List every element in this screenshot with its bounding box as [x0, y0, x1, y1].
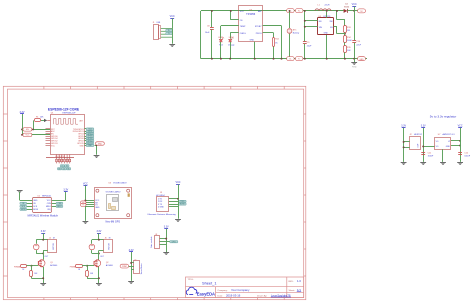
svg-text:MISO: MISO — [57, 206, 62, 208]
svg-text:HDR1X2: HDR1X2 — [414, 134, 423, 136]
svg-text:CSN: CSN — [47, 203, 52, 205]
svg-text:ESP8266-12F CORE: ESP8266-12F CORE — [48, 108, 80, 112]
wire GPS GND pin — [85, 206, 94, 208]
svg-text:AO3400: AO3400 — [50, 264, 57, 267]
svg-text:100K: 100K — [347, 40, 352, 42]
net port B+ — [287, 9, 295, 13]
wire gate — [87, 265, 94, 267]
svg-text:GND: GND — [360, 59, 365, 61]
capacitor C12 — [458, 152, 471, 157]
wire U4 STDBY to LED2 — [230, 32, 239, 34]
net port GND flag (ESP) — [96, 142, 105, 145]
ground (reg 4) — [457, 163, 463, 166]
GPS mounting holes — [96, 189, 99, 192]
power flag 3.3V (gate) — [164, 226, 169, 239]
svg-text:Date:: Date: — [218, 294, 224, 297]
svg-text:GND: GND — [33, 200, 38, 202]
LED1 — [218, 37, 224, 60]
svg-text:VCC: VCC — [240, 11, 245, 13]
svg-text:MOSI: MOSI — [21, 209, 26, 211]
net port SRV flag — [129, 266, 134, 268]
power flag VCC (boost out) — [352, 3, 357, 12]
svg-text:CHRG: CHRG — [240, 33, 246, 35]
wire U5 GND down — [326, 35, 328, 59]
svg-text:AMS1117-3.3: AMS1117-3.3 — [443, 133, 456, 136]
EasyEDA logo — [186, 287, 215, 296]
ground (NRF) — [17, 191, 33, 201]
svg-text:Company:: Company: — [218, 290, 228, 292]
svg-text:Battery: Battery — [293, 32, 299, 35]
svg-text:GND: GND — [95, 207, 100, 209]
wire left edge — [200, 11, 202, 59]
ground (motor 2) — [96, 284, 102, 287]
svg-text:FP6291: FP6291 — [324, 16, 332, 18]
ground (USB) — [169, 45, 175, 48]
svg-text:LED1: LED1 — [218, 37, 224, 39]
connector J6 motor — [104, 238, 113, 253]
wire U4 GND — [254, 42, 256, 59]
module U1 ESP8266-12F — [51, 113, 85, 155]
net label GPIO4 — [86, 133, 94, 135]
svg-text:EasyEDA: EasyEDA — [197, 291, 215, 296]
capacitor C10 — [352, 11, 361, 60]
connector J5 motor — [48, 238, 57, 253]
capacitor C9 — [303, 10, 312, 60]
connector U6 — [403, 134, 423, 150]
wire source to pulldown — [87, 278, 99, 280]
wire GPS VCC pin — [85, 200, 94, 202]
resistor R6 pulldown — [86, 266, 94, 279]
ground (reg 3) — [440, 163, 446, 166]
power flag 3.3V (NRF) — [52, 189, 69, 201]
svg-text:MOSI: MOSI — [33, 209, 38, 211]
svg-text:1.0: 1.0 — [297, 279, 301, 283]
ESP bottom net labels — [60, 165, 64, 167]
wire gate GND — [160, 244, 167, 246]
wire US GND — [169, 206, 178, 208]
capacitor C15 motor — [89, 240, 95, 254]
svg-text:Servo Motor: Servo Motor — [140, 263, 143, 274]
net label CSN — [52, 203, 56, 205]
net label ECHO — [169, 204, 179, 206]
svg-text:GPIO: GPIO — [172, 241, 177, 243]
transistor Q1 MOSFET — [38, 260, 57, 267]
pin L8 VCC — [46, 145, 51, 147]
wire top rail — [201, 10, 344, 12]
net label GPIO2 — [86, 140, 94, 142]
power flag 3.3V (motor 1) — [41, 230, 46, 240]
wire U4 pin2 — [230, 11, 232, 20]
pin L5 GPIO14 — [46, 138, 51, 140]
net label GPIO5 — [86, 135, 94, 137]
svg-text:D+: D+ — [168, 30, 170, 32]
wire U7 GND down — [442, 149, 444, 162]
sheet border frame — [3, 86, 306, 299]
pin L1 RST — [46, 128, 51, 130]
svg-text:R1: R1 — [36, 116, 38, 118]
svg-text:ANT: ANT — [80, 120, 83, 123]
IC U7 AMS1117-3.3 — [435, 133, 456, 150]
connector J7 servo — [134, 259, 143, 274]
net label CE — [27, 203, 33, 205]
power flag VCC (USB) — [170, 15, 175, 28]
power flag 3.3V (reg left) — [401, 125, 406, 162]
ground (reg 1) — [401, 163, 407, 166]
svg-text:22uH: 22uH — [325, 4, 330, 6]
svg-text:CK: CK — [63, 168, 65, 170]
svg-text:GY-NEO-6MV2: GY-NEO-6MV2 — [106, 192, 122, 194]
net label TXD0 — [86, 128, 94, 130]
svg-text:Charge: Charge — [228, 45, 235, 47]
power flag 3.3V (ESP) — [20, 111, 25, 135]
net port EN flag — [22, 129, 50, 131]
net label SCK — [27, 206, 33, 208]
wire US 5V — [169, 198, 178, 200]
resistor R5 gate — [70, 265, 87, 272]
GPS inner board — [107, 193, 130, 210]
pin L7 GPIO13 — [46, 143, 51, 145]
ground (ESP) — [94, 156, 100, 159]
wire source to pulldown — [31, 278, 43, 280]
diode D4 SS34 — [344, 4, 355, 13]
svg-text:1M: 1M — [347, 30, 350, 32]
IC U5 boost — [318, 16, 334, 35]
svg-text:TX: TX — [82, 205, 84, 207]
title block — [186, 277, 304, 298]
svg-text:U2: U2 — [38, 195, 40, 197]
connector J8 gate — [150, 234, 159, 249]
svg-text:PROG: PROG — [256, 33, 262, 35]
net label TRIG — [169, 201, 179, 203]
pin L3 EN — [46, 133, 51, 135]
power flag 3.3V (motor 2) — [96, 230, 101, 240]
net port GND (bottom) — [358, 57, 366, 61]
svg-text:Neo-6M GPS: Neo-6M GPS — [106, 220, 121, 223]
wire divider top — [336, 11, 338, 20]
svg-text:VCC: VCC — [83, 182, 88, 185]
net port RX mini flag — [84, 202, 94, 204]
svg-text:LED2: LED2 — [229, 37, 235, 39]
wire — [172, 28, 174, 43]
power flag VCC (US) — [175, 181, 180, 199]
svg-text:Your Company: Your Company — [231, 288, 250, 292]
connector J1 USB — [153, 22, 173, 39]
svg-text:GND: GND — [80, 145, 85, 147]
svg-text:9 10 11 6 7 8: 9 10 11 6 7 8 — [55, 156, 64, 158]
wire U4 STDBY branch — [263, 25, 282, 27]
power flag VCC (GPS) — [83, 182, 88, 207]
wire U5 VIN — [305, 26, 318, 28]
svg-text:10uF: 10uF — [205, 32, 210, 34]
net port P- (bottom) — [295, 57, 303, 61]
net port 5V (top) — [354, 10, 358, 12]
svg-text:22uF: 22uF — [356, 45, 361, 47]
resistor R13 — [344, 26, 352, 36]
wire U5 SW up — [326, 12, 328, 18]
wire U4 CHRG to LED1 — [221, 25, 239, 27]
power flag 3.3V (reg mid) — [421, 125, 426, 162]
svg-text:NRF24L01 Wireless Module: NRF24L01 Wireless Module — [27, 214, 58, 217]
net label GPIO15 — [86, 142, 94, 144]
net label D+ — [166, 29, 172, 31]
net port TX mini flag — [84, 204, 94, 206]
svg-text:100nF: 100nF — [464, 156, 470, 158]
net label D- — [166, 32, 172, 34]
svg-text:Q2: Q2 — [106, 262, 109, 264]
svg-text:VCC: VCC — [47, 200, 52, 202]
ESP bottom header — [46, 155, 74, 164]
net port B- (bottom) — [287, 57, 295, 61]
svg-text:3.3V: 3.3V — [96, 230, 101, 233]
wire motor top tee — [92, 239, 104, 241]
svg-text:MISO: MISO — [46, 206, 51, 208]
svg-text:PWMA: PWMA — [14, 265, 21, 268]
svg-text:NRF24L01: NRF24L01 — [42, 195, 51, 197]
svg-text:ECHO: ECHO — [180, 204, 186, 206]
wire servo VCC — [131, 262, 134, 264]
net label RXD0 — [86, 130, 94, 132]
net label MOSI — [27, 209, 33, 211]
svg-text:GND: GND — [250, 39, 255, 41]
svg-text:PWM: PWM — [122, 266, 127, 268]
net label GPIO — [160, 241, 170, 243]
svg-text:GND: GND — [324, 32, 329, 34]
ground (US) — [175, 220, 181, 223]
ground (boost) — [351, 59, 357, 69]
module U8 ultrasonic — [156, 192, 169, 211]
svg-text:Gate module: Gate module — [150, 236, 153, 248]
resistor R4 pulldown — [30, 266, 39, 279]
svg-text:STDBY: STDBY — [255, 26, 262, 28]
wire ESP GND out — [95, 145, 97, 147]
svg-text:TP4056: TP4056 — [246, 12, 256, 16]
pin L4 GPIO16 — [46, 136, 51, 138]
svg-text:VCC: VCC — [170, 15, 175, 18]
wire reg mid to U7 — [423, 146, 434, 148]
resistor R15 — [344, 46, 352, 60]
battery BT1 — [287, 10, 299, 60]
resistor R3 gate — [14, 265, 31, 272]
LED2 — [228, 37, 235, 60]
module U2 NRF24L01 — [33, 195, 52, 212]
svg-text:MOTOR: MOTOR — [53, 242, 55, 249]
module U3 GPS — [95, 182, 132, 218]
svg-text:SW: SW — [330, 21, 333, 23]
capacitor C8 — [205, 10, 214, 60]
wire gate — [31, 265, 38, 267]
transistor Q2 MOSFET — [94, 260, 113, 267]
capacitor C14 motor — [33, 240, 39, 254]
ground (gate) — [163, 253, 169, 256]
wire U5 FB to divider — [334, 26, 338, 28]
svg-text:3.3V: 3.3V — [41, 230, 46, 233]
ground (servo) — [128, 282, 134, 285]
ground (motor 1) — [40, 284, 46, 287]
power flag 3.3V (servo) — [129, 249, 134, 263]
svg-text:Drawn By:: Drawn By: — [257, 294, 267, 297]
svg-text:CS: CS — [61, 166, 63, 168]
resistor R12 — [263, 33, 280, 60]
net label GND — [86, 144, 94, 146]
wire motor bottom — [92, 253, 99, 255]
svg-text:J1: J1 — [153, 22, 155, 24]
svg-text:AO3400: AO3400 — [106, 264, 113, 267]
wire U5 EN — [305, 20, 318, 22]
resistor R1 pullup — [32, 116, 50, 130]
svg-text:22uF: 22uF — [307, 46, 312, 48]
pin L2 ADC — [46, 131, 51, 133]
svg-text:GND: GND — [98, 143, 103, 145]
wire — [96, 145, 98, 155]
net port B- (top) — [295, 9, 303, 13]
resistor R14 — [344, 36, 353, 46]
capacitor C11 — [421, 152, 434, 157]
svg-text:IRQ: IRQ — [47, 209, 51, 211]
net label MISO — [52, 206, 56, 208]
wire gate VCC — [160, 238, 167, 240]
svg-text:GY-NEO-6MV2: GY-NEO-6MV2 — [113, 182, 127, 184]
svg-text:Sheet_1: Sheet_1 — [202, 281, 217, 286]
svg-text:Ultrasonic Distance Measuring: Ultrasonic Distance Measuring — [147, 213, 176, 216]
net port VCC flag — [22, 134, 50, 136]
wire servo GND — [131, 269, 134, 271]
svg-text:5v to 3.3v regulator: 5v to 3.3v regulator — [430, 115, 456, 119]
wire U7 VI — [451, 140, 460, 142]
svg-text:4 GND: 4 GND — [158, 206, 164, 208]
wire motor bottom — [36, 253, 43, 255]
wire bottom rail — [201, 58, 367, 60]
inductor L1 — [315, 4, 331, 10]
ground (GPS) — [83, 222, 89, 225]
svg-text:Sheet:: Sheet: — [289, 289, 296, 292]
svg-text:TEMP: TEMP — [240, 26, 246, 28]
power flag VCC (reg right) — [458, 125, 463, 162]
svg-text:VCC: VCC — [352, 3, 357, 6]
svg-text:100nF: 100nF — [428, 156, 434, 158]
net label GPIO0 — [86, 137, 94, 139]
antenna meander — [54, 119, 78, 125]
pin L6 GPIO12 — [46, 140, 51, 142]
svg-text:REV:: REV: — [289, 281, 294, 283]
ground (reg 2) — [420, 163, 426, 166]
wire U7 pin4 — [451, 145, 460, 147]
svg-text:2019-03-16: 2019-03-16 — [226, 293, 241, 297]
svg-text:VCC: VCC — [175, 181, 180, 184]
svg-text:P+: P+ — [298, 11, 300, 13]
svg-text:GND: GND — [446, 146, 451, 148]
IC U4 TP4056 — [239, 6, 263, 42]
svg-text:MOTOR: MOTOR — [109, 242, 111, 249]
svg-text:TITLE:: TITLE: — [188, 279, 194, 281]
svg-text:Q1: Q1 — [50, 262, 53, 264]
wire motor top tee — [36, 239, 48, 241]
